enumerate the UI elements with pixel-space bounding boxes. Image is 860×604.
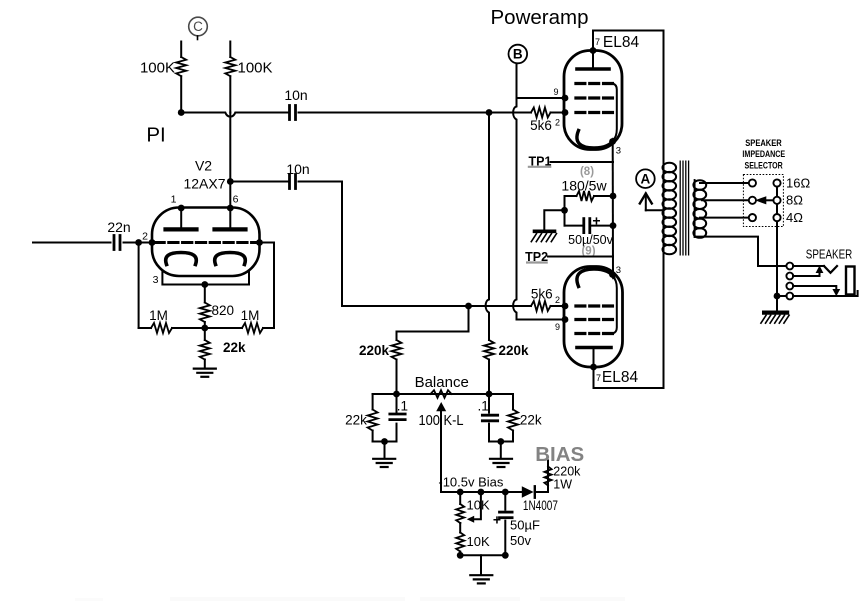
wire right grid drop — [260, 243, 275, 329]
wire 10n to grid top EL84 — [299, 112, 487, 114]
svg-text:.1: .1 — [397, 399, 408, 414]
wire balance rail — [373, 393, 513, 395]
V2 cathode right — [215, 253, 246, 265]
wire to ground — [500, 442, 502, 459]
EL84 bottom grids (dashed) — [576, 304, 613, 307]
resistor 22k tail — [200, 328, 210, 368]
capacitor 50u/50v — [565, 225, 584, 227]
wire primary core line — [663, 163, 665, 253]
node top grid split — [486, 109, 493, 116]
faint scan bands — [170, 597, 405, 601]
svg-text:220k: 220k — [498, 343, 529, 358]
svg-text:+: + — [493, 512, 501, 528]
wire 22n to V2 pin 2 — [124, 242, 153, 244]
svg-text:3: 3 — [616, 146, 621, 157]
svg-text:50v: 50v — [510, 533, 531, 548]
svg-text:10n: 10n — [284, 87, 307, 103]
svg-text:10K: 10K — [467, 498, 490, 513]
ground bias — [470, 575, 492, 583]
resistor 1M left — [139, 323, 205, 333]
EL84 bottom cathode — [577, 269, 614, 287]
V2 grid (dashed) — [155, 241, 257, 244]
arrow to centre tap — [645, 194, 647, 211]
wire to chassis ground — [776, 296, 778, 310]
svg-text:10n: 10n — [286, 161, 309, 177]
svg-text:+: + — [592, 213, 600, 229]
EL84 bottom plate — [577, 346, 611, 350]
svg-text:1M: 1M — [241, 308, 260, 323]
resistor 100K left — [176, 42, 186, 113]
svg-text:100K: 100K — [140, 60, 175, 77]
selector terminals right — [773, 179, 780, 186]
svg-text:820: 820 — [212, 303, 235, 318]
svg-text:220k: 220k — [359, 343, 390, 358]
node cathode join — [201, 281, 208, 288]
svg-text:IMPEDANCE: IMPEDANCE — [742, 149, 785, 159]
V2 plate right — [215, 227, 246, 231]
wire TP2 tap — [548, 256, 613, 258]
svg-text:12AX7: 12AX7 — [183, 176, 225, 192]
svg-text:5k6: 5k6 — [530, 118, 552, 133]
selector dotted box — [743, 175, 783, 227]
svg-text:22k: 22k — [345, 413, 367, 428]
wire bias rail — [441, 491, 522, 493]
svg-text:2: 2 — [555, 295, 560, 305]
svg-text:22n: 22n — [107, 219, 130, 235]
EL84 top pin 3 — [609, 138, 616, 145]
svg-text:3: 3 — [153, 274, 159, 286]
svg-text:.1: .1 — [477, 399, 488, 414]
node plate left — [178, 109, 185, 116]
EL84 top plate — [577, 67, 609, 71]
jack contacts — [786, 263, 793, 270]
wire centre tap — [646, 209, 664, 211]
svg-text:SELECTOR: SELECTOR — [745, 160, 784, 170]
resistor 22k right — [508, 394, 518, 442]
node 10K pot top — [457, 489, 464, 496]
V2 cathode bracket pin 3 — [162, 271, 249, 285]
EL84 bottom g3 hook — [613, 277, 617, 334]
tube EL84 bottom envelope — [564, 267, 623, 368]
EL84 bottom pin 3 — [609, 271, 616, 278]
svg-text:50µF: 50µF — [510, 518, 540, 533]
capacitor .1 right — [488, 394, 490, 413]
resistor 220k right — [484, 336, 494, 394]
EL84 bottom pin 7 — [590, 364, 597, 371]
node wiper feed — [478, 489, 485, 496]
wire cathode rail — [612, 142, 614, 275]
node left group gnd — [381, 438, 388, 445]
V2 pin 1 — [178, 205, 185, 212]
svg-text:22k: 22k — [520, 413, 542, 428]
node right group gnd — [497, 438, 504, 445]
wire to ground — [480, 555, 482, 574]
svg-text:3: 3 — [616, 265, 621, 276]
node tail — [201, 325, 208, 332]
svg-text:V2: V2 — [195, 158, 212, 174]
node cap right — [610, 222, 617, 229]
wire to tip spring — [793, 265, 824, 267]
resistor 5k6 bottom — [528, 301, 565, 311]
svg-text:PI: PI — [146, 124, 165, 147]
wire to 10n lower — [234, 181, 290, 183]
resistor 220k 1W — [544, 461, 551, 493]
wire to ground — [384, 442, 386, 459]
ground balance left — [373, 459, 395, 467]
resistor 180/5w — [565, 191, 614, 201]
potentiometer Balance 100K-L — [431, 390, 452, 398]
chassis ground speaker — [761, 313, 789, 324]
wire diode to 220k — [536, 491, 548, 493]
wire right group bottom — [489, 441, 513, 443]
capacitor 10n lower — [290, 175, 296, 189]
svg-text:-10.5v Bias: -10.5v Bias — [438, 475, 504, 490]
wire common to jack sleeve — [780, 295, 786, 297]
svg-text:Balance: Balance — [415, 374, 469, 391]
EL84 bottom pin 9 — [562, 316, 569, 323]
node left 220k bottom — [393, 391, 400, 398]
node C (supply) — [189, 17, 208, 36]
capacitor 50uF/50v — [504, 492, 506, 510]
potentiometer 10K — [456, 492, 464, 523]
resistor 220k left — [392, 332, 402, 395]
node right 220k bottom — [486, 391, 493, 398]
svg-text:100K: 100K — [238, 60, 273, 77]
svg-text:SPEAKER: SPEAKER — [806, 248, 853, 262]
wire anode top to OT — [593, 31, 664, 164]
node ground tee — [561, 207, 568, 214]
wire pot wiper — [474, 492, 481, 519]
V2 pin 6 — [227, 205, 234, 212]
wire to chassis ground — [544, 210, 564, 229]
node B (screen supply) — [509, 45, 528, 64]
ground tail — [194, 369, 216, 377]
svg-text:BIAS: BIAS — [535, 443, 584, 466]
svg-text:B: B — [513, 47, 523, 62]
wire 220k right feed (hops y=306) — [486, 113, 489, 341]
wire secondary taps — [700, 182, 749, 184]
wire TP1 tap — [551, 161, 614, 163]
jack tip spring V — [824, 266, 837, 273]
jack body — [846, 267, 855, 295]
svg-text:16Ω: 16Ω — [786, 175, 810, 190]
EL84 top pin 7 — [590, 47, 597, 54]
wire bias gnd rail — [460, 554, 505, 556]
diode 1N4007 — [522, 486, 534, 497]
svg-text:6: 6 — [233, 194, 239, 206]
capacitor 22n — [114, 236, 120, 250]
resistor 820 — [200, 285, 210, 329]
selector common rail — [776, 187, 778, 197]
selector terminals left — [749, 179, 756, 186]
tube V2 12AX7 envelope — [152, 208, 260, 277]
wire anode bottom to OT — [594, 253, 664, 388]
EL84 bottom pin 2 — [562, 303, 569, 310]
V2 pin 7 (grid right) — [256, 239, 263, 246]
transformer secondary — [694, 180, 696, 237]
node cap bottom — [502, 552, 509, 559]
wire V2 pin6 lead — [229, 113, 231, 209]
svg-text:100 K-L: 100 K-L — [419, 412, 464, 429]
svg-text:Poweramp: Poweramp — [491, 6, 589, 29]
wire left grid drop — [138, 243, 140, 329]
EL84 top g3 hook — [613, 84, 617, 141]
wire screen rail with hops — [513, 64, 564, 320]
svg-text:7: 7 — [596, 373, 601, 383]
ground balance right — [490, 459, 512, 467]
svg-text:2: 2 — [142, 231, 148, 243]
tube EL84 top envelope — [564, 51, 622, 150]
svg-text:7: 7 — [595, 37, 600, 47]
svg-text:EL84: EL84 — [602, 369, 639, 386]
EL84 top pin 2 — [562, 109, 569, 116]
wire jack sleeve — [793, 291, 858, 296]
selector arrow (8 ohm selected) — [766, 199, 774, 201]
node 10K bottom — [457, 552, 464, 559]
svg-text:2: 2 — [555, 118, 560, 128]
svg-text:1: 1 — [171, 194, 177, 206]
wire bottom grid run — [469, 305, 529, 307]
node selector common — [774, 293, 781, 300]
resistor 5k6 top — [489, 108, 565, 118]
svg-text:1N4007: 1N4007 — [523, 498, 558, 513]
jack tip arrow — [793, 273, 820, 277]
svg-text:SPEAKER: SPEAKER — [745, 138, 782, 148]
EL84 top cathode — [577, 131, 614, 149]
capacitor .1 left — [396, 394, 398, 413]
V2 cathode left — [166, 253, 197, 265]
svg-text:8Ω: 8Ω — [786, 193, 803, 208]
wire input — [33, 242, 111, 244]
wire left group bottom — [373, 441, 397, 443]
node plate right tap — [227, 178, 234, 185]
node bottom grid split — [465, 303, 472, 310]
V2 plate left — [166, 227, 197, 231]
svg-text:1M: 1M — [149, 308, 168, 323]
svg-text:9: 9 — [555, 322, 560, 332]
node 180 right — [610, 193, 617, 200]
wire secondary bottom to jack — [695, 237, 787, 266]
svg-text:4Ω: 4Ω — [786, 210, 803, 225]
EL84 top grids (dashed) — [576, 82, 613, 85]
svg-text:C: C — [193, 19, 203, 34]
svg-text:9: 9 — [553, 87, 558, 97]
V2 pin 2 — [149, 239, 156, 246]
capacitor 10n top — [290, 106, 296, 120]
transformer core — [679, 161, 681, 256]
resistor 10K lower — [456, 523, 464, 555]
svg-text:22k: 22k — [223, 340, 246, 355]
svg-text:EL84: EL84 — [603, 34, 640, 51]
EL84 top pin 9 — [562, 95, 569, 102]
wire balance wiper — [440, 411, 442, 492]
svg-text:1W: 1W — [553, 478, 572, 492]
resistor 1M right — [205, 323, 274, 333]
svg-text:5k6: 5k6 — [531, 287, 553, 302]
node A (B+ centre tap) — [636, 169, 655, 188]
svg-text:220k: 220k — [553, 465, 581, 479]
resistor 22k left — [368, 394, 378, 442]
chassis ground screen RC — [531, 231, 556, 241]
resistor 100K right — [225, 42, 235, 113]
node 50uF top — [502, 489, 509, 496]
svg-text:(8): (8) — [580, 166, 594, 178]
wire jog to 220k left — [397, 306, 469, 332]
wire 10n lower to bottom grid run — [299, 182, 466, 307]
node input junction — [135, 239, 142, 246]
jack ring arrow — [793, 286, 836, 290]
wire left rail RC — [564, 196, 566, 226]
svg-text:A: A — [641, 171, 651, 186]
svg-text:10K: 10K — [467, 534, 490, 549]
svg-text:180/5w: 180/5w — [561, 178, 607, 194]
